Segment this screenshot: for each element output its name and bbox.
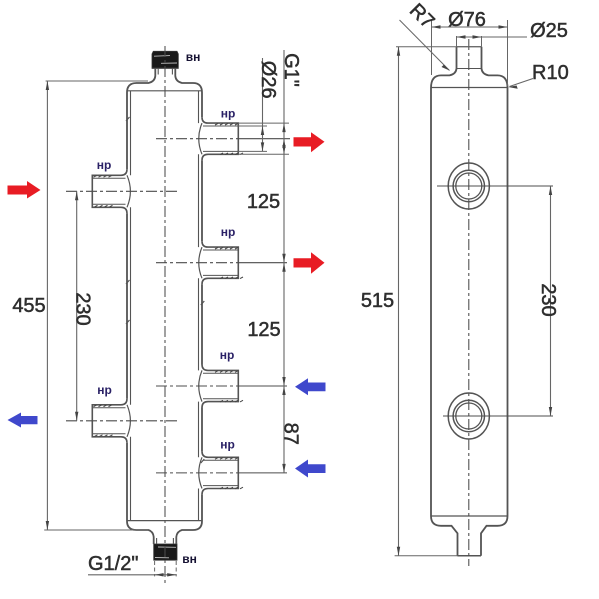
separator body (side view) [431,47,508,556]
right wall inner segments [198,91,200,521]
blue flow arrow right port4 [295,460,326,478]
dimension Ø25 (top stub) [457,20,568,47]
svg-text:515: 515 [361,290,394,312]
side view top dome with stub flare [431,47,508,88]
svg-text:нр: нр [220,348,235,362]
top threaded fitting (black) [152,51,178,76]
svg-text:вн: вн [186,50,201,64]
leader R7 (stub fillet) [400,0,450,71]
svg-text:нр: нр [220,438,235,452]
upper port circle (side view) [448,163,489,209]
body top outline with corners and top-stub flare [127,68,202,92]
dimension 230 (left ports spacing) [72,191,94,420]
svg-text:87: 87 [280,423,302,445]
red flow arrow right port1 [294,132,325,152]
svg-text:R7: R7 [405,0,439,33]
dimension 125 (port2-port3) [247,263,285,386]
red flow arrow right port2 [294,252,325,274]
red flow arrow left (into port A) [8,181,41,199]
right side port 1 (нр) [199,117,243,160]
svg-text:вн: вн [182,552,197,566]
lower circle centerline [443,415,553,417]
dimension 455 (overall body height) [12,81,148,530]
bottom weld seam [127,520,202,522]
dimension 515 (overall height side view) [361,47,482,556]
svg-text:230: 230 [72,292,94,325]
bottom stub pipe walls [154,537,177,544]
label нр port 1 [221,107,236,121]
svg-text:G1": G1" [280,53,302,87]
port 4 centerline [156,472,287,474]
dimension G1" and chained 125/125/87 line [238,50,301,473]
svg-text:125: 125 [247,191,280,213]
svg-text:нр: нр [221,225,236,239]
svg-text:нр: нр [97,158,112,172]
label нр port 2 [221,225,236,239]
upper circle centerline [437,185,553,187]
left wall outer segments [126,93,128,522]
svg-text:G1/2": G1/2" [88,553,138,575]
dimension 87 (port3-port4) [280,386,302,473]
body bottom outline with corners and bottom-stub flare [127,521,202,544]
label нр port A [97,158,112,172]
right side port 4 (нр) [199,451,243,494]
svg-text:230: 230 [537,283,559,316]
blue flow arrow left (out of port B) [8,413,38,428]
port 2 centerline [156,262,287,264]
lower port circle (side view) [448,393,489,439]
left side port B (lower, нр) [92,399,130,443]
separator body (front view) [126,68,204,544]
svg-text:R10: R10 [532,62,569,84]
right side port 2 (нр) [199,241,243,284]
dimension Ø76 (body diameter) [432,9,508,86]
dimension 230 (side view port spacing) [537,186,559,416]
svg-text:Ø25: Ø25 [530,20,568,42]
label нр port 4 [220,438,235,452]
label вн (bottom fitting) [182,552,197,566]
svg-text:Ø26: Ø26 [257,61,279,99]
port 3 centerline [156,385,287,387]
left wall inner segments [130,91,132,521]
svg-text:455: 455 [12,295,45,317]
side view top stub mouth [457,47,482,69]
svg-text:нр: нр [221,107,236,121]
svg-text:Ø76: Ø76 [448,9,486,31]
side view bottom seam [431,515,508,517]
svg-text:125: 125 [247,319,280,341]
port B centerline [66,420,180,422]
dimension Ø26 (port bore) [238,58,278,151]
side view body walls [431,88,508,516]
port A centerline [66,190,180,192]
port 1 centerline [156,138,290,140]
left side port A (upper, нр) [92,169,130,213]
side view top seam [431,87,508,89]
bottom threaded fitting (black) [154,537,177,560]
dimension G1/2" (bottom fitting) [88,553,176,577]
side view bottom cap with stub [431,516,508,556]
label вн (top fitting) [186,50,201,64]
blue flow arrow right port3 [295,378,326,395]
dimension 125 (port1-port2) [247,139,286,263]
top stub pipe walls [152,68,178,76]
top weld seam [127,90,202,92]
svg-text:нр: нр [97,383,112,397]
side view centerline [468,39,470,566]
right side port 3 (нр) [199,365,243,408]
right wall outer segments [201,93,203,522]
vertical centerline of front view [164,46,166,584]
label нр port 3 [220,348,235,362]
label нр port B [97,383,112,397]
leader R10 (shoulder radius) [508,62,569,89]
side view bottom stub end [458,555,482,557]
wall break tick marks [126,117,204,463]
